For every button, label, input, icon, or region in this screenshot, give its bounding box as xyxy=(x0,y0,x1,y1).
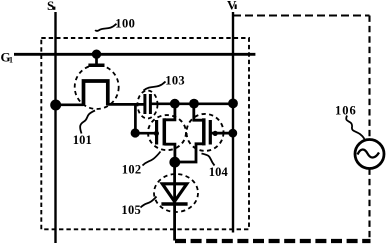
svg-text:V: V xyxy=(227,0,237,13)
svg-text:102: 102 xyxy=(122,162,142,176)
svg-text:100: 100 xyxy=(115,16,135,30)
svg-text:103: 103 xyxy=(165,73,185,87)
svg-text:101: 101 xyxy=(73,133,92,147)
svg-text:106: 106 xyxy=(335,103,357,117)
svg-text:105: 105 xyxy=(121,203,141,217)
svg-text:104: 104 xyxy=(209,165,229,179)
svg-text:S: S xyxy=(47,0,54,13)
svg-text:1: 1 xyxy=(9,55,13,64)
